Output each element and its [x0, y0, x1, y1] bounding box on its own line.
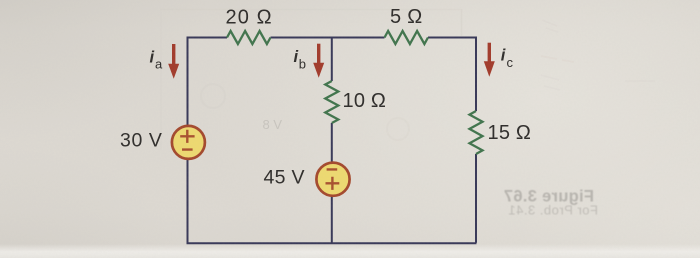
label 45 V — [264, 167, 305, 189]
label ic — [501, 47, 514, 71]
bleed-through faint box lines — [160, 9, 462, 150]
label 20 ohm — [226, 6, 273, 28]
wire middle branch — [331, 37, 333, 244]
label ia — [150, 49, 164, 72]
voltage source V2 45V circle — [316, 163, 349, 196]
bleed-through mirrored caption Figure 3.67 — [504, 188, 598, 218]
resistor 5 ohm — [385, 31, 429, 44]
label 5 ohm — [390, 6, 423, 28]
wire right branch — [475, 37, 477, 243]
wire bottom — [187, 242, 477, 244]
label ib — [294, 48, 307, 72]
bleed-through faint marks — [201, 20, 655, 140]
resistor 10 ohm — [325, 81, 338, 123]
current arrow ia — [168, 44, 179, 79]
label 15 ohm — [488, 122, 532, 144]
voltage source V1 30V circle — [172, 126, 205, 159]
current arrow ic — [484, 43, 495, 77]
label 10 ohm — [343, 90, 387, 112]
label 30 V — [120, 130, 163, 152]
resistor 20 ohm — [227, 31, 271, 44]
current arrow ib — [313, 44, 324, 78]
wire top from node A to node B — [188, 37, 477, 39]
resistor 15 ohm — [470, 111, 483, 154]
wire left branch — [187, 37, 189, 244]
